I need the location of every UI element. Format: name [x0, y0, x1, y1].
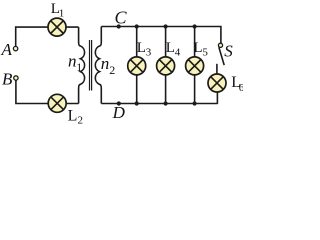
- svg-text:D: D: [112, 103, 126, 122]
- svg-text:A: A: [1, 40, 13, 59]
- svg-text:3: 3: [146, 46, 152, 58]
- svg-text:2: 2: [78, 115, 84, 125]
- svg-text:n: n: [68, 51, 77, 70]
- svg-text:S: S: [224, 41, 233, 60]
- svg-text:L: L: [137, 40, 146, 56]
- svg-text:L: L: [193, 40, 202, 56]
- svg-text:6: 6: [239, 82, 243, 94]
- svg-text:2: 2: [109, 63, 115, 77]
- svg-text:1: 1: [76, 60, 82, 74]
- svg-text:L: L: [166, 40, 175, 56]
- svg-text:n: n: [101, 54, 110, 73]
- svg-text:C: C: [115, 8, 128, 28]
- svg-text:1: 1: [59, 7, 65, 19]
- svg-text:B: B: [2, 70, 13, 89]
- svg-text:L: L: [68, 107, 78, 124]
- svg-text:4: 4: [175, 46, 181, 58]
- svg-text:5: 5: [202, 46, 208, 58]
